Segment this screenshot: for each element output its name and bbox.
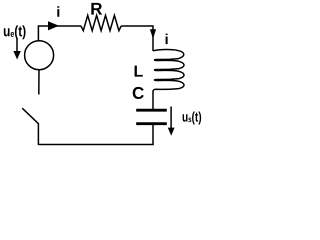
current arrow i top [48,21,59,30]
switch bottom post [37,123,39,145]
current arrow i right [150,29,156,39]
capacitor C1 top plate [136,109,167,112]
label i (right) [166,34,168,45]
wire source top to resistor [38,26,81,41]
wire source bottom to switch [38,70,40,95]
switch blade (open) [22,108,38,123]
inductor L1 [153,50,184,92]
label u_e(t) [4,25,26,39]
label i (top) [57,6,59,17]
label R [91,3,102,15]
arrow u_s(t) direction [168,107,175,136]
label u_s(t) [183,111,202,124]
label L [135,66,143,77]
resistor R1 [81,15,121,30]
voltage source U1 [25,41,54,70]
wire inductor to capacitor [152,91,154,109]
capacitor C1 bottom plate [136,122,167,125]
bottom wire [38,144,153,146]
arrow u_e(t) direction [13,39,20,60]
wire capacitor down to bottom [152,125,154,145]
label C [133,87,144,99]
wire resistor to top-right corner down [121,26,153,51]
